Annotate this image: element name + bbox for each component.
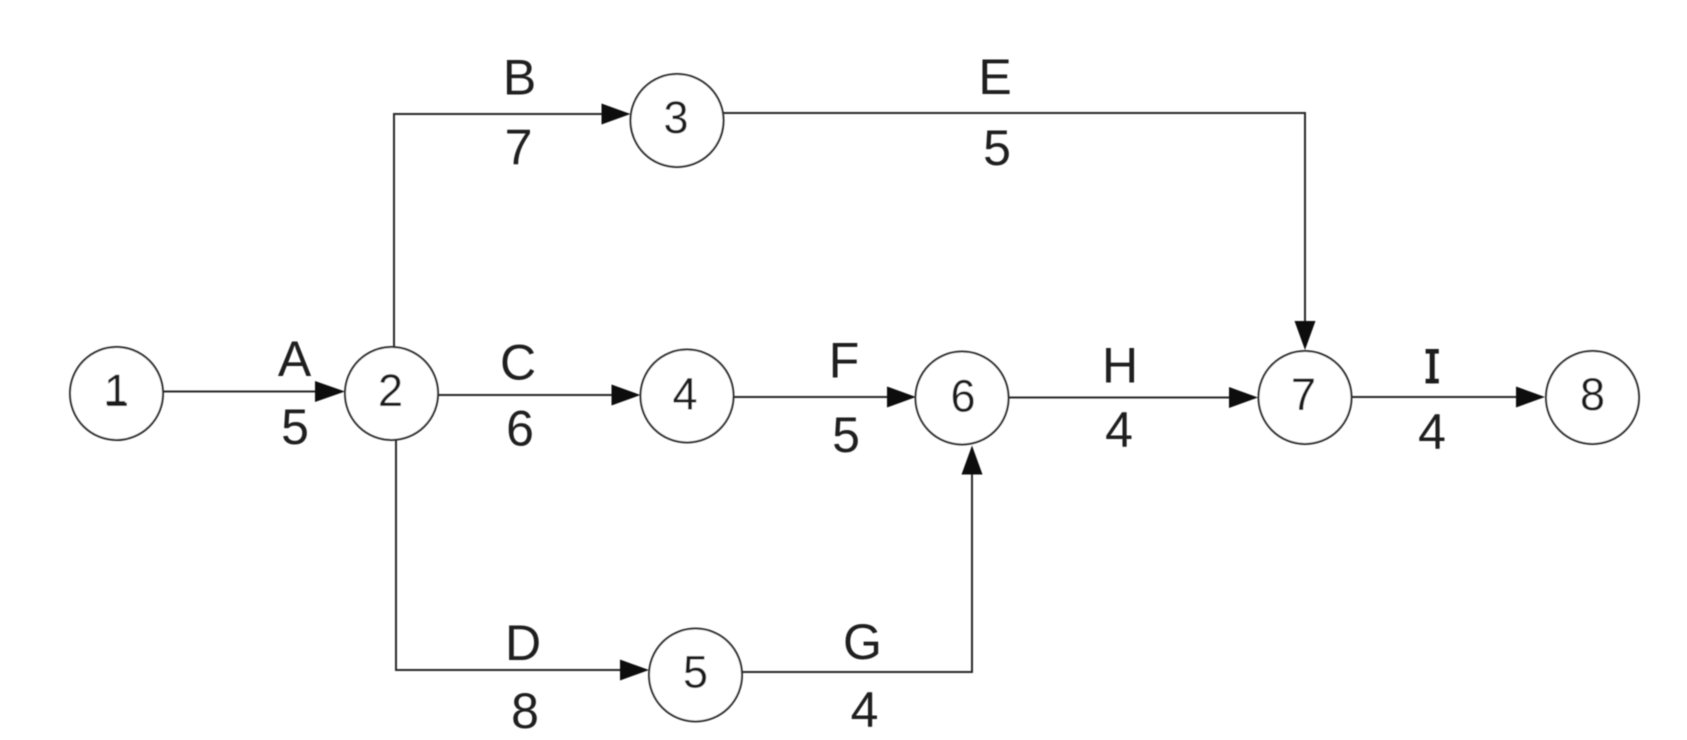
svg-text:5: 5 — [683, 647, 708, 698]
svg-text:5: 5 — [281, 399, 309, 455]
svg-text:4: 4 — [672, 369, 697, 420]
svg-text:H: H — [1102, 338, 1138, 394]
svg-text:5: 5 — [832, 407, 860, 463]
svg-text:A: A — [278, 331, 312, 387]
svg-text:4: 4 — [1105, 402, 1133, 458]
svg-text:2: 2 — [378, 365, 403, 416]
svg-text:E: E — [978, 49, 1011, 105]
svg-text:8: 8 — [511, 683, 539, 739]
svg-text:7: 7 — [505, 120, 533, 176]
svg-text:B: B — [503, 50, 536, 106]
svg-text:8: 8 — [1580, 369, 1605, 420]
svg-text:F: F — [829, 333, 860, 389]
svg-text:3: 3 — [663, 92, 688, 143]
svg-text:C: C — [500, 335, 536, 391]
svg-text:6: 6 — [506, 401, 534, 457]
svg-text:6: 6 — [950, 371, 975, 422]
svg-text:D: D — [505, 615, 541, 671]
svg-text:4: 4 — [851, 682, 879, 738]
svg-text:7: 7 — [1291, 369, 1316, 420]
svg-text:G: G — [843, 614, 882, 670]
svg-text:5: 5 — [983, 120, 1011, 176]
svg-text:4: 4 — [1418, 404, 1446, 460]
svg-text:1: 1 — [104, 365, 129, 416]
